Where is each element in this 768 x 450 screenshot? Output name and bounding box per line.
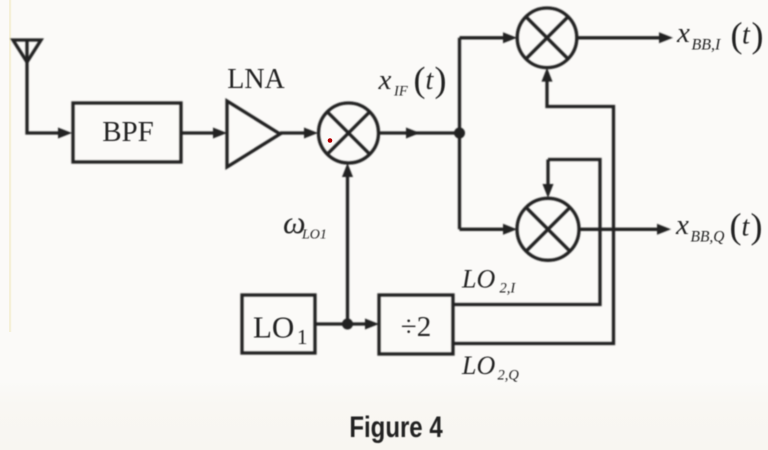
node junction: [454, 128, 465, 139]
mixer M2 cross: [526, 17, 568, 59]
divider /2 box: [379, 295, 453, 354]
wire BPF to LNA: [181, 131, 213, 134]
svg-text:x: x: [378, 64, 392, 96]
svg-text:x: x: [676, 17, 690, 49]
svg-text:): ): [751, 206, 763, 246]
wire arrow into BPF: [58, 128, 72, 139]
svg-text:Figure 4: Figure 4: [349, 409, 442, 443]
wire to top mixer: [460, 36, 504, 39]
svg-text:(: (: [731, 15, 743, 55]
svg-text:t: t: [426, 65, 435, 96]
wire LO2Q into top mixer: [453, 81, 614, 344]
wire LO2I into bottom mixer: [453, 160, 600, 305]
svg-text:): ): [435, 60, 447, 100]
antenna stem wire: [27, 40, 58, 133]
faint yellow edge line: [9, 0, 11, 332]
mixer M1 circle: [319, 103, 379, 163]
wire LNA to mixer1: [280, 131, 304, 134]
svg-text:BB,Q: BB,Q: [691, 229, 725, 246]
svg-text:2,Q: 2,Q: [498, 368, 520, 384]
svg-text:LO1: LO1: [301, 228, 327, 243]
wire top mixer output: [577, 36, 659, 39]
red dot in mixer1: [328, 138, 333, 143]
svg-text:÷2: ÷2: [401, 311, 431, 343]
wire vertical split: [458, 38, 461, 230]
svg-text:BPF: BPF: [102, 116, 154, 148]
mixer M3 (Q) circle: [517, 198, 579, 260]
svg-text:x: x: [675, 209, 689, 241]
svg-text:LNA: LNA: [227, 64, 285, 95]
LO1 box: [242, 295, 315, 353]
mixer M2 (I) circle: [517, 8, 577, 68]
mixer M3 cross: [526, 207, 570, 251]
wire bottom mixer output: [579, 228, 657, 231]
antenna: [13, 40, 41, 62]
junction at LO1 output: [342, 319, 353, 330]
amplifier LNA triangle: [227, 101, 280, 167]
svg-text:t: t: [742, 212, 751, 243]
svg-text:LO: LO: [461, 265, 495, 294]
svg-text:LO: LO: [461, 351, 495, 380]
svg-text:LO: LO: [253, 310, 294, 345]
wire mixer1 to node: [379, 131, 460, 134]
svg-text:1: 1: [297, 325, 308, 349]
svg-text:(: (: [730, 206, 742, 246]
svg-text:2,I: 2,I: [500, 281, 517, 297]
svg-text:t: t: [742, 20, 751, 51]
svg-text:BB,I: BB,I: [692, 37, 722, 54]
wire LO1 up to mixer1: [346, 177, 349, 324]
svg-text:IF: IF: [393, 84, 408, 100]
wire LO1 to div2: [315, 322, 365, 325]
svg-text:(: (: [414, 60, 426, 100]
mixer M1 cross: [327, 112, 369, 154]
svg-text:): ): [752, 15, 764, 55]
BPF box: [73, 103, 181, 162]
wire to bottom mixer: [460, 228, 504, 231]
